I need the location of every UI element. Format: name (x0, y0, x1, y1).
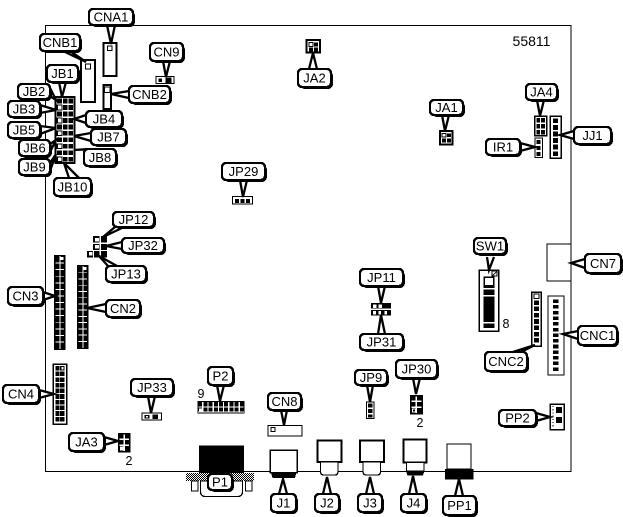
connector CNB1 (81, 60, 95, 102)
svg-text:JB3: JB3 (13, 102, 35, 117)
callout JB8 (84, 149, 118, 168)
svg-text:JA1: JA1 (435, 100, 457, 115)
callout IR1 (486, 139, 522, 157)
callout JJ1 (574, 127, 613, 146)
svg-text:CN9: CN9 (153, 45, 179, 60)
leader CN3 (43, 292, 55, 300)
callout CN8 (268, 393, 303, 412)
callout CN4 (3, 385, 41, 405)
callout JB10 (54, 178, 93, 198)
svg-text:J1: J1 (277, 496, 291, 511)
svg-text:JB2: JB2 (23, 84, 45, 99)
svg-text:55811: 55811 (513, 33, 551, 49)
leader JP9 (367, 385, 373, 402)
leader CNA1 (107, 25, 115, 44)
leader JB4 (74, 115, 86, 123)
svg-text:CNA1: CNA1 (94, 10, 129, 25)
callout JB6 (19, 140, 52, 158)
callout JP33 (131, 379, 175, 398)
callout JB3 (8, 101, 42, 119)
connector J3 (360, 441, 384, 476)
svg-text:2: 2 (126, 454, 133, 468)
svg-text:J2: J2 (320, 496, 334, 511)
callout JB9 (19, 159, 52, 177)
callout JP11 (360, 269, 405, 288)
leader SW1 (487, 257, 494, 270)
connector CN3 (54, 255, 66, 350)
callout P1 (208, 474, 234, 492)
svg-text:JB1: JB1 (51, 66, 73, 81)
connector CNB2 (104, 85, 112, 109)
callout CNC1 (578, 326, 619, 347)
jumper block JP12/JP32/JP13 (87, 236, 107, 258)
leader JB8 (74, 149, 97, 150)
callout CNB1 (40, 34, 82, 53)
jumper block JP11/JP31 (371, 303, 391, 316)
connector P1 (DB shell) (186, 446, 254, 497)
callout JA2 (298, 69, 333, 89)
svg-text:JP29: JP29 (229, 164, 259, 179)
leader JP30 (413, 378, 420, 394)
connector J4 (404, 440, 427, 476)
svg-text:CNB1: CNB1 (43, 35, 78, 50)
leader JP12 (103, 227, 124, 237)
connector CN9 (156, 77, 174, 84)
leader J4 (409, 476, 417, 494)
svg-text:SW1: SW1 (476, 239, 504, 254)
svg-text:JB7: JB7 (97, 130, 119, 145)
callout PP1 (443, 496, 478, 517)
svg-text:JP32: JP32 (128, 238, 158, 253)
callout CN2 (106, 300, 142, 319)
svg-text:JB6: JB6 (23, 141, 45, 156)
leader J2 (323, 477, 331, 494)
svg-text:JP9: JP9 (360, 370, 382, 385)
leader CN7 (571, 259, 585, 268)
svg-text:CN8: CN8 (271, 394, 297, 409)
leader JP33 (148, 396, 155, 413)
leader JJ1 (560, 131, 574, 139)
jumper JA2 (307, 40, 321, 53)
callout JA3 (69, 433, 106, 453)
jumper block JB1-JB10 (56, 97, 75, 163)
connector JJ1 (550, 116, 561, 158)
leader CN4 (39, 390, 54, 398)
jumper JA1 (440, 131, 453, 145)
leader JP29 (240, 180, 247, 197)
leader JB6 (50, 140, 56, 152)
connector PP1 (445, 444, 474, 480)
callout JP13 (106, 266, 148, 284)
leader JB2 (50, 88, 56, 100)
jumper block JP30 (410, 395, 423, 415)
callout JA1 (430, 100, 465, 117)
callout PP2 (499, 410, 538, 428)
callout JP32 (122, 238, 166, 255)
svg-text:JP12: JP12 (119, 212, 149, 227)
connector CN2 (77, 265, 89, 349)
connector CNA1 (104, 43, 117, 76)
svg-text:J4: J4 (407, 496, 421, 511)
svg-text:JP11: JP11 (367, 270, 396, 285)
leader JP13 (99, 256, 117, 266)
svg-text:JJ1: JJ1 (582, 128, 602, 143)
svg-text:CNC2: CNC2 (488, 354, 523, 369)
svg-text:JA2: JA2 (303, 71, 325, 86)
leader JA2 (309, 53, 317, 69)
jumper block JA3 (118, 433, 131, 453)
jumper JP9 (367, 402, 375, 419)
leader JB3 (40, 105, 56, 113)
svg-text:JA4: JA4 (530, 85, 552, 100)
leader PP1 (455, 479, 463, 496)
connector J2 (318, 441, 342, 476)
svg-text:JA3: JA3 (75, 435, 97, 450)
svg-text:JB9: JB9 (23, 160, 45, 175)
svg-text:PP1: PP1 (447, 498, 472, 513)
leader JP11 (378, 286, 385, 303)
leader JP32 (106, 242, 122, 249)
svg-text:CN7: CN7 (590, 256, 616, 271)
connector CNC2 (532, 292, 542, 346)
svg-text:CNC1: CNC1 (580, 328, 615, 343)
connector PP2 (550, 404, 564, 430)
callout JP12 (113, 212, 156, 229)
svg-text:JP31: JP31 (367, 335, 397, 350)
leader CN2 (87, 304, 106, 312)
svg-text:JB5: JB5 (13, 123, 35, 138)
leader JA1 (442, 115, 449, 131)
callout CN7 (585, 254, 623, 275)
leader PP2 (536, 413, 550, 421)
leader JA4 (537, 100, 544, 116)
callout JP30 (396, 360, 439, 380)
board outline (46, 26, 572, 472)
svg-text:JB4: JB4 (93, 112, 115, 127)
callout CNA1 (89, 9, 135, 27)
svg-text:CNB2: CNB2 (132, 87, 167, 102)
leader CNC2 (513, 345, 535, 352)
svg-text:P2: P2 (213, 369, 229, 384)
callout CN9 (150, 43, 185, 63)
leader JB10 (64, 163, 79, 178)
svg-text:9: 9 (198, 387, 205, 401)
svg-text:JP30: JP30 (402, 362, 432, 377)
callout JB5 (8, 122, 42, 140)
callout JP9 (355, 370, 389, 387)
connector CN7 (547, 244, 571, 281)
svg-text:P1: P1 (212, 475, 228, 490)
svg-text:JB8: JB8 (89, 150, 111, 165)
leader CNB1 (63, 51, 86, 62)
leader J1 (279, 479, 287, 494)
leader CNC1 (563, 331, 578, 339)
leader P2 (217, 385, 224, 401)
callout JB1 (47, 65, 80, 84)
svg-text:IR1: IR1 (493, 140, 513, 155)
svg-text:CN2: CN2 (110, 301, 136, 316)
header P2 (198, 401, 245, 414)
connector CN4 (53, 364, 67, 424)
leader CN8 (281, 410, 287, 425)
callout J2 (315, 494, 341, 514)
connector CN8 (268, 426, 302, 437)
callout JP31 (360, 334, 405, 352)
callout JB2 (18, 84, 52, 101)
jumper JP29 (233, 197, 253, 205)
svg-text:2: 2 (417, 416, 424, 430)
callout J1 (271, 494, 298, 514)
callout CNB2 (129, 86, 172, 105)
connector CNC1 (548, 296, 564, 375)
svg-text:JP33: JP33 (137, 380, 167, 395)
leader IR1 (520, 143, 535, 151)
callout J3 (358, 494, 384, 514)
svg-text:CN3: CN3 (12, 289, 38, 304)
DIP switch SW1 (479, 270, 499, 331)
svg-text:8: 8 (503, 317, 510, 331)
leader JA3 (104, 437, 118, 445)
callout CNC2 (485, 352, 529, 373)
svg-text:CN4: CN4 (8, 387, 34, 402)
leader JB5 (40, 126, 56, 134)
leader J3 (366, 477, 374, 494)
callout CN3 (8, 287, 45, 307)
leader JP31 (378, 315, 385, 334)
callout JA4 (526, 84, 559, 102)
svg-text:J3: J3 (363, 496, 377, 511)
callout JB4 (86, 111, 124, 129)
callout J4 (401, 494, 428, 514)
leader JB1 (59, 82, 66, 97)
leader JB7 (74, 133, 91, 141)
callout JP29 (222, 163, 267, 182)
leader CN9 (163, 61, 170, 77)
callout JB7 (91, 129, 128, 147)
connector J1 (270, 450, 297, 478)
callout P2 (208, 367, 235, 387)
svg-text:PP2: PP2 (505, 411, 530, 426)
svg-text:JB10: JB10 (58, 180, 88, 195)
header JA4 (535, 116, 547, 136)
leader JB9 (50, 154, 56, 171)
callout SW1 (474, 238, 508, 256)
leader CNB2 (111, 91, 129, 98)
jumper JP33 (142, 413, 162, 420)
connector IR1 (535, 138, 543, 158)
svg-text:JP13: JP13 (111, 267, 141, 282)
